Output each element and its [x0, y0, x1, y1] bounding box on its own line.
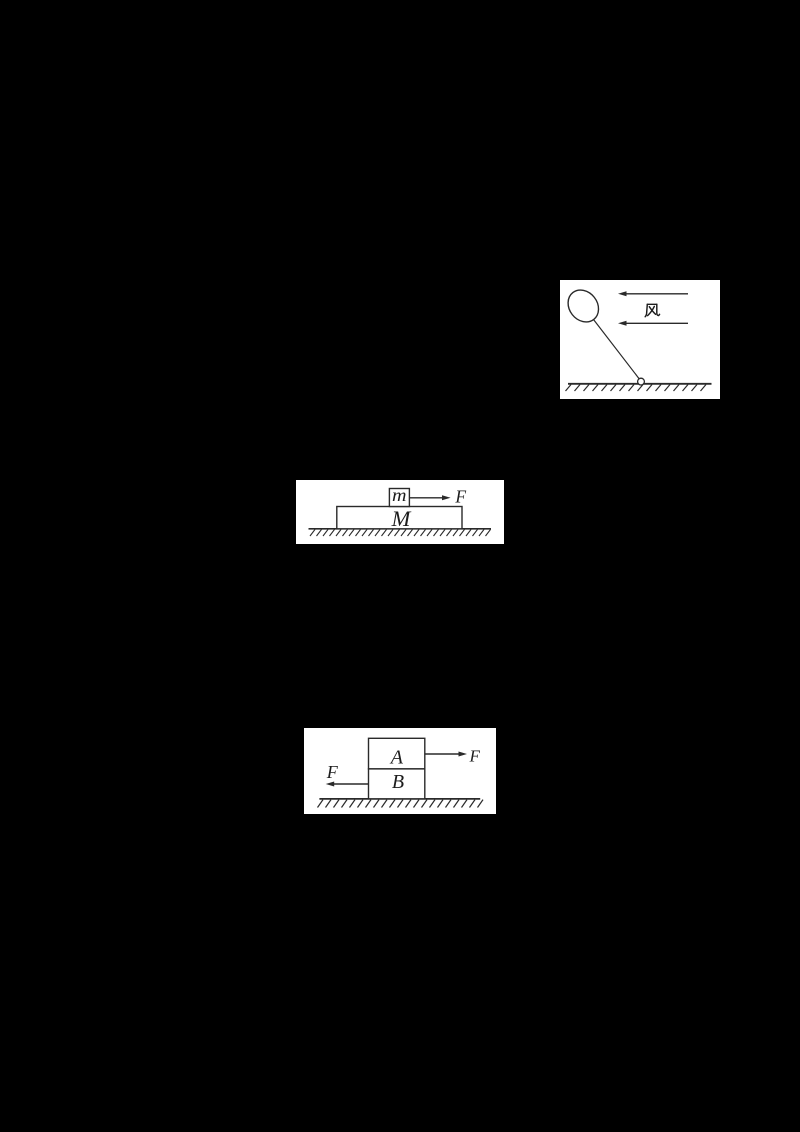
wind arrow bottom — [618, 320, 688, 325]
ground line — [309, 528, 492, 530]
block A — [368, 738, 424, 769]
block m — [389, 489, 409, 507]
panel 2: block m on M — [296, 480, 504, 544]
wind arrow top — [618, 291, 688, 296]
label wind (feng) — [645, 304, 659, 316]
force arrow F right on A — [424, 751, 466, 756]
svg-text:F: F — [468, 746, 480, 765]
force arrow F on m — [410, 495, 451, 500]
svg-text:B: B — [391, 770, 403, 792]
string — [593, 319, 638, 378]
panel 1: balloon in wind — [560, 280, 721, 399]
panel 3: stacked blocks A and B — [304, 728, 497, 815]
ground hatching — [317, 799, 483, 807]
ground line — [319, 797, 480, 799]
balloon — [561, 283, 604, 327]
svg-text:M: M — [391, 506, 412, 531]
block B — [368, 768, 424, 798]
ground hatching — [565, 384, 706, 391]
ground line — [568, 382, 712, 384]
force arrow F left on B — [325, 781, 368, 786]
svg-text:F: F — [325, 762, 338, 782]
ground hatching — [310, 529, 491, 536]
svg-text:A: A — [388, 746, 403, 768]
anchor ring — [637, 378, 644, 385]
svg-text:m: m — [392, 485, 407, 505]
block M — [337, 507, 462, 529]
svg-text:F: F — [454, 486, 466, 506]
